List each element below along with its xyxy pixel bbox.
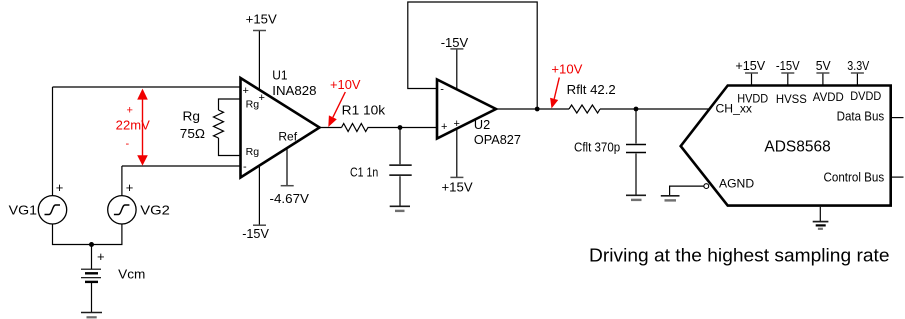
wire Rg bracket bbox=[219, 99, 241, 110]
svg-text:-: - bbox=[243, 161, 247, 173]
svg-text:-4.67V: -4.67V bbox=[270, 191, 310, 206]
svg-text:Rg: Rg bbox=[246, 98, 260, 110]
pin Control Bus bbox=[891, 176, 904, 178]
svg-text:Vcm: Vcm bbox=[118, 266, 145, 281]
pin HVDD bbox=[751, 73, 753, 86]
svg-text:Cflt 370p: Cflt 370p bbox=[574, 140, 620, 155]
wire battery to ground bbox=[91, 282, 93, 312]
resistor R1 10k bbox=[342, 124, 368, 132]
svg-text:22mV: 22mV bbox=[116, 118, 150, 133]
node OPA output junction bbox=[535, 107, 540, 112]
wire feedback loop bbox=[408, 2, 537, 109]
ground below C1 bbox=[390, 205, 410, 207]
svg-text:-15V: -15V bbox=[441, 35, 469, 50]
svg-text:75Ω: 75Ω bbox=[180, 126, 205, 141]
pin Data Bus bbox=[891, 117, 904, 119]
svg-text:U1: U1 bbox=[272, 67, 287, 82]
resistor Rflt 42.2 bbox=[569, 105, 600, 113]
svg-text:+: + bbox=[127, 105, 133, 117]
svg-text:Driving at the highest samplin: Driving at the highest sampling rate bbox=[589, 246, 890, 266]
U1 +15V supply bbox=[258, 31, 260, 90]
svg-text:VG2: VG2 bbox=[140, 203, 170, 218]
svg-text:+: + bbox=[126, 180, 134, 195]
op-amp U1 INA828 triangle bbox=[241, 78, 320, 178]
svg-text:-: - bbox=[126, 138, 130, 150]
svg-text:-: - bbox=[440, 84, 444, 96]
U2 -15V supply bbox=[456, 49, 458, 90]
node C1 junction bbox=[398, 125, 403, 130]
wire OPA out bbox=[496, 108, 569, 110]
wire INA out to R1 bbox=[320, 127, 342, 129]
U2 +15V supply bbox=[456, 127, 458, 177]
svg-text:+: + bbox=[243, 85, 249, 97]
svg-text:+15V: +15V bbox=[442, 179, 473, 194]
svg-text:+10V: +10V bbox=[551, 62, 582, 77]
svg-text:AVDD: AVDD bbox=[813, 90, 844, 104]
capacitor Cflt 370p bbox=[635, 109, 637, 144]
svg-text:Data Bus: Data Bus bbox=[837, 108, 885, 123]
svg-text:DVDD: DVDD bbox=[850, 89, 881, 103]
svg-text:+15V: +15V bbox=[735, 58, 765, 73]
svg-text:C1 1n: C1 1n bbox=[350, 164, 378, 179]
wire VG2 top vertical bbox=[121, 166, 123, 196]
svg-text:R1 10k: R1 10k bbox=[342, 102, 386, 117]
node VG bottom junction bbox=[89, 242, 94, 247]
svg-text:Control Bus: Control Bus bbox=[824, 169, 885, 184]
wire Rflt to CH_xx bbox=[600, 108, 710, 110]
ADC U3 ADS8568 outline bbox=[681, 86, 891, 206]
op-amp U2 OPA827 triangle bbox=[437, 80, 496, 139]
wire top horizontal to INA +in bbox=[53, 86, 241, 88]
svg-text:U2: U2 bbox=[474, 117, 490, 132]
svg-text:VG1: VG1 bbox=[9, 203, 37, 218]
svg-text:-15V: -15V bbox=[776, 58, 800, 73]
wire VG2 bottom bbox=[92, 224, 122, 245]
pin DVDD bbox=[856, 73, 858, 86]
wire R1 to OPA +in bbox=[368, 127, 438, 129]
ground at AGND bbox=[661, 195, 680, 197]
battery Vcm bbox=[81, 269, 101, 282]
svg-text:+: + bbox=[259, 92, 265, 104]
U1 Ref pin to -4.67V bbox=[286, 148, 288, 186]
svg-text:Rflt 42.2: Rflt 42.2 bbox=[567, 82, 616, 97]
capacitor C1 1n bbox=[399, 128, 401, 165]
svg-text:ADS8568: ADS8568 bbox=[764, 139, 830, 156]
svg-text:+: + bbox=[441, 121, 447, 133]
svg-text:Rg: Rg bbox=[246, 146, 260, 158]
svg-text:+15V: +15V bbox=[246, 11, 277, 26]
svg-text:HVSS: HVSS bbox=[776, 92, 807, 106]
svg-text:INA828: INA828 bbox=[272, 83, 316, 98]
ground below ADS8568 bbox=[819, 207, 821, 222]
wire -in horizontal bbox=[122, 165, 241, 167]
node Cflt junction bbox=[634, 107, 639, 112]
svg-text:+10V: +10V bbox=[330, 77, 361, 92]
voltage source VG1 bbox=[38, 196, 66, 224]
voltage source VG2 bbox=[108, 196, 136, 224]
svg-text:5V: 5V bbox=[816, 58, 831, 73]
svg-text:+: + bbox=[97, 249, 105, 264]
resistor Rg 75ohm bbox=[214, 110, 224, 138]
svg-text:-15V: -15V bbox=[242, 226, 269, 241]
svg-text:OPA827: OPA827 bbox=[474, 132, 521, 147]
svg-text:CH_xx: CH_xx bbox=[716, 102, 753, 116]
svg-text:Ref: Ref bbox=[278, 130, 297, 144]
svg-text:AGND: AGND bbox=[719, 176, 754, 190]
red measurement arrow 22mV bbox=[137, 89, 148, 166]
svg-text:Rg: Rg bbox=[183, 109, 201, 124]
pin HVSS bbox=[787, 73, 789, 86]
wire VG1 bottom bbox=[53, 224, 92, 245]
pin AVDD bbox=[822, 73, 824, 86]
svg-text:3.3V: 3.3V bbox=[847, 58, 869, 73]
wire VG1 top vertical bbox=[52, 87, 54, 196]
svg-text:+: + bbox=[56, 180, 64, 195]
ground below Cflt bbox=[626, 194, 646, 196]
pin AGND with open circle bbox=[704, 184, 709, 189]
U1 -15V supply bbox=[258, 165, 260, 225]
ground below Vcm bbox=[81, 313, 102, 318]
wire battery stem top bbox=[91, 245, 93, 270]
